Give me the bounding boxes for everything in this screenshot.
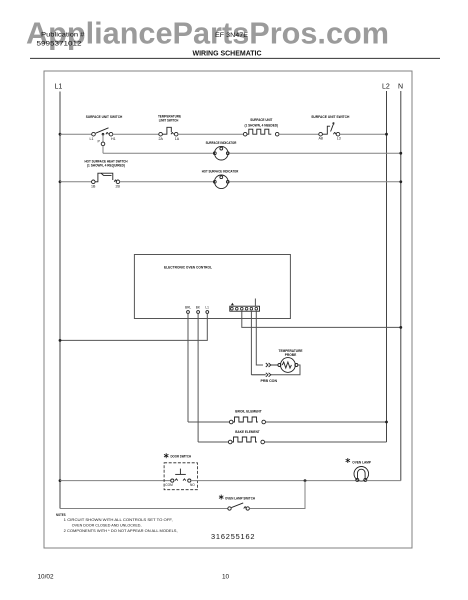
svg-text:NO: NO [190, 483, 195, 487]
wire broil row right to L2 [266, 421, 387, 423]
wire connector pin6 probe feed [256, 311, 263, 365]
door switch asterisk [164, 453, 168, 458]
svg-text:L1: L1 [205, 306, 209, 310]
junction L1 row3 [59, 180, 62, 183]
svg-text:10: 10 [222, 574, 230, 581]
svg-text:LIMIT SWITCH: LIMIT SWITCH [159, 118, 179, 122]
wire bake row right to L2 end [265, 441, 387, 443]
svg-text:316255162: 316255162 [211, 532, 255, 541]
svg-text:OVEN DOOR CLOSED AND UNLOCKED,: OVEN DOOR CLOSED AND UNLOCKED, [72, 523, 142, 527]
svg-text:HOT SURFACE INDICATOR: HOT SURFACE INDICATOR [202, 170, 239, 174]
svg-text:OVEN LAMP SWITCH: OVEN LAMP SWITCH [225, 497, 255, 501]
svg-text:1A: 1A [175, 137, 180, 141]
junction row1 L2 [385, 133, 388, 136]
junction broil L2 [385, 421, 388, 424]
junction L1 row1 [59, 133, 62, 136]
svg-text:PRB CON: PRB CON [261, 379, 278, 383]
probe connector chevrons bottom [251, 373, 270, 377]
junction L1 door row [59, 479, 62, 482]
wire lamp switch to riser [249, 481, 305, 509]
svg-text:ELECTRONIC OVEN CONTROL: ELECTRONIC OVEN CONTROL [164, 265, 213, 269]
wire EOC broil feed [187, 313, 189, 422]
svg-text:N: N [398, 84, 403, 91]
schematic border frame [44, 71, 412, 548]
svg-text:L1: L1 [90, 137, 94, 141]
connector key arrow [231, 303, 234, 306]
svg-text:SURFACE UNIT SWITCH: SURFACE UNIT SWITCH [86, 114, 123, 119]
temperature limit switch [159, 127, 178, 136]
broil element R2 [229, 417, 265, 424]
oven lamp asterisk [346, 458, 350, 463]
probe connector chevrons top [266, 363, 278, 367]
wire row1 SW1 to TLS [113, 133, 159, 135]
svg-text:Publication #: Publication # [41, 33, 85, 39]
N bus wire [400, 91, 402, 481]
L2 bus wire [386, 91, 388, 442]
junction pin3 N [399, 326, 402, 329]
svg-text:H1: H1 [111, 137, 116, 141]
door switch contacts [171, 469, 191, 483]
svg-text:L1: L1 [55, 84, 63, 91]
svg-text:NOTES: NOTES [56, 513, 66, 517]
EOC pin terminal circles [187, 311, 209, 314]
wire row1 from L1 [60, 133, 92, 135]
wire bake row left [198, 441, 228, 443]
svg-text:SURFACE INDICATOR: SURFACE INDICATOR [206, 141, 237, 145]
svg-text:2 COMPONENTS WITH * DO NOT A: 2 COMPONENTS WITH * DO NOT APPEAR ON ALL… [64, 529, 178, 533]
svg-text:L2: L2 [382, 84, 390, 91]
svg-text:EF 3N47E: EF 3N47E [215, 32, 248, 39]
temperature probe RT1 [278, 358, 298, 373]
wire lamp switch row from L1 [60, 508, 228, 510]
wire drop to row2 [102, 146, 104, 154]
wire EOC L1 feed [60, 313, 207, 340]
surface unit switch SW1 [92, 128, 113, 136]
wire row2 indicator to N [229, 152, 401, 154]
wire row1 TLS to surface unit [178, 133, 243, 135]
wire door row from L1 [60, 480, 171, 482]
svg-text:2B: 2B [116, 184, 121, 188]
bake element R3 [228, 437, 264, 444]
svg-text:A8: A8 [319, 137, 323, 141]
svg-text:1B: 1B [91, 184, 96, 188]
junction SW1 pole [102, 133, 105, 136]
wire row1 SW2 to L2 [340, 133, 387, 135]
svg-text:(1 SHOWN, 4 NEEDED): (1 SHOWN, 4 NEEDED) [245, 124, 279, 128]
surface unit element R1 [243, 129, 279, 136]
surface unit switch SW2 [319, 123, 340, 137]
door switch S3 dashed box [164, 463, 197, 490]
wire SW1 pole drop [102, 134, 104, 142]
wire connector pin3 to N [242, 311, 401, 327]
wire EOC bake feed [197, 313, 199, 442]
svg-text:OVEN LAMP: OVEN LAMP [352, 460, 371, 464]
electronic oven control box U1 [134, 255, 290, 319]
wire lamp to N [367, 480, 401, 482]
surface indicator lamp [213, 146, 229, 160]
svg-text:BAKE ELEMENT: BAKE ELEMENT [235, 430, 260, 434]
oven lamp switch S4 [228, 503, 250, 510]
oven lamp DS1 [354, 467, 369, 482]
L1 bus wire [59, 92, 61, 509]
hot surface indicator lamp [213, 175, 229, 189]
svg-text:COM: COM [165, 483, 173, 487]
wire probe loop [271, 365, 300, 375]
junction L1 feed [59, 339, 62, 342]
wire door row to lamp [191, 480, 356, 482]
wire connector pin5 probe return [250, 311, 252, 375]
svg-text:BROIL ELEMENT: BROIL ELEMENT [235, 410, 262, 414]
junction row2 N [399, 152, 402, 155]
svg-text:10/02: 10/02 [38, 574, 54, 581]
svg-text:1 CIRCUIT SHOWN WITH ALL CON: 1 CIRCUIT SHOWN WITH ALL CONTROLS SET TO… [64, 518, 173, 522]
svg-text:(1 SHOWN, 4 REQUIRED): (1 SHOWN, 4 REQUIRED) [87, 163, 125, 167]
wire connector pin6 stub [254, 299, 256, 307]
svg-text:2A: 2A [159, 137, 164, 141]
EOC connector J1 [230, 306, 260, 311]
svg-text:SURFACE UNIT SWITCH: SURFACE UNIT SWITCH [311, 114, 349, 119]
title underline rule [30, 57, 440, 59]
wire row3 indicator to N [229, 181, 401, 183]
wire row2 to indicator [103, 152, 215, 154]
wire row3 from L1 [60, 181, 92, 183]
wire row1 surface unit to SW2 [279, 133, 319, 135]
svg-text:L3: L3 [337, 137, 341, 141]
svg-text:BRL: BRL [185, 306, 191, 310]
svg-text:WIRING SCHEMATIC: WIRING SCHEMATIC [193, 51, 262, 58]
svg-text:5995371012: 5995371012 [37, 41, 82, 48]
svg-text:PROBE: PROBE [285, 353, 297, 357]
wire row3 to hot indicator [120, 181, 215, 183]
hot surface heat switch [92, 173, 120, 183]
lamp switch asterisk [219, 495, 223, 500]
connector bullet [101, 142, 105, 146]
wire broil row left [188, 421, 229, 423]
junction row3 N [399, 180, 402, 183]
svg-text:SURFACE UNIT: SURFACE UNIT [250, 118, 273, 122]
svg-text:DOOR SWITCH: DOOR SWITCH [171, 455, 192, 459]
junction lamp switch riser [304, 479, 307, 482]
